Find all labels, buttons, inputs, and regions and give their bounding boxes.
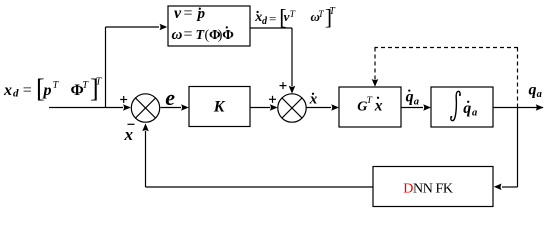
- svg-text:DNN FK: DNN FK: [403, 182, 453, 197]
- svg-text:T: T: [318, 10, 324, 20]
- svg-text:d: d: [13, 88, 19, 100]
- svg-text:T: T: [290, 10, 296, 20]
- svg-text:=: =: [184, 26, 193, 43]
- svg-text:K: K: [213, 99, 226, 116]
- svg-text:a: a: [537, 89, 542, 100]
- svg-text:ω: ω: [172, 27, 183, 43]
- svg-text:q: q: [529, 82, 537, 99]
- svg-text:=: =: [184, 5, 193, 22]
- svg-text:p: p: [196, 6, 206, 22]
- svg-text:e: e: [165, 85, 175, 110]
- svg-text:p: p: [42, 82, 52, 99]
- svg-text:a: a: [414, 97, 419, 108]
- svg-text:q: q: [463, 100, 471, 117]
- svg-text:x: x: [124, 125, 134, 144]
- svg-text:x: x: [3, 82, 12, 99]
- svg-text:x: x: [309, 92, 318, 108]
- svg-text:=: =: [269, 11, 276, 26]
- svg-text:x: x: [374, 98, 383, 115]
- svg-text:=: =: [23, 82, 32, 99]
- svg-text:a: a: [472, 108, 477, 119]
- svg-text:T: T: [367, 96, 373, 106]
- svg-text:q: q: [406, 89, 414, 106]
- svg-text:v: v: [174, 5, 182, 22]
- svg-text:Φ: Φ: [222, 28, 234, 43]
